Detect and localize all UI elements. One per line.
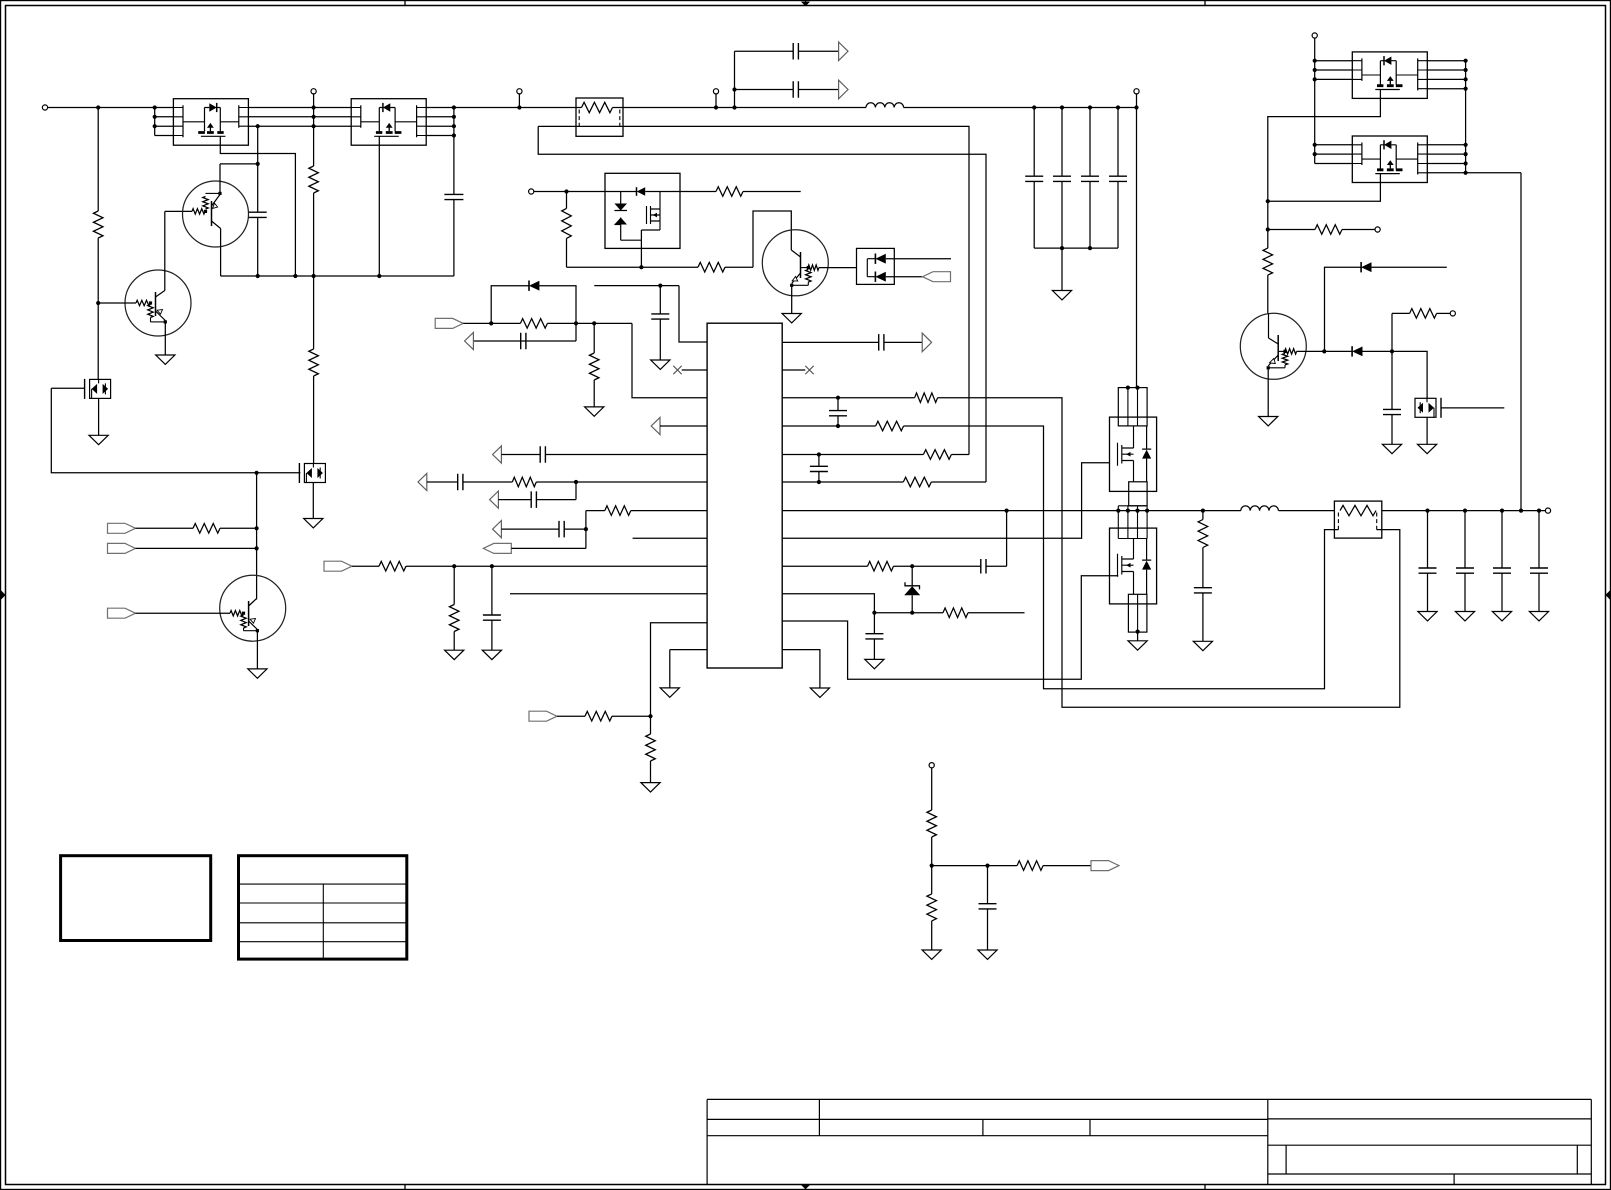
wire pin xyxy=(1427,144,1465,146)
wire xyxy=(586,510,605,512)
wire IC pin1R xyxy=(782,341,879,343)
ground xyxy=(1193,641,1212,650)
wire xyxy=(151,321,166,323)
capacitor C20 xyxy=(818,455,820,467)
wire Q1 emitter up xyxy=(219,164,221,194)
wire M1 source xyxy=(98,398,100,435)
ground xyxy=(585,407,604,416)
wire left pin bus xyxy=(1314,38,1316,163)
wire Q4 emitter xyxy=(791,285,793,313)
ground xyxy=(1052,291,1071,300)
wire Q2 base xyxy=(98,302,136,304)
wire diode branch xyxy=(1325,267,1362,351)
connector tag VCC xyxy=(435,318,463,328)
wire IC pin4 xyxy=(660,425,707,427)
wire xyxy=(1437,312,1451,314)
diode D4 xyxy=(1360,262,1362,272)
ground xyxy=(782,314,801,323)
wire xyxy=(313,193,315,349)
wire xyxy=(894,565,981,567)
wire M6 source xyxy=(1426,418,1428,445)
capacitor C6 xyxy=(793,81,798,98)
ground xyxy=(1455,612,1474,621)
wire pkg1 pin4 stub xyxy=(155,135,174,137)
ground xyxy=(865,659,884,668)
wire pin xyxy=(1315,153,1353,155)
resistor R25 xyxy=(943,608,968,618)
ground xyxy=(1382,444,1401,453)
wire Q3 emitter xyxy=(256,631,258,669)
resistor R9 xyxy=(562,208,572,238)
wire M1 drain xyxy=(97,303,99,379)
wire xyxy=(244,630,258,632)
wire IC pin6R xyxy=(782,481,903,483)
wire left pin bus vertical xyxy=(154,108,156,136)
resistor R29 xyxy=(1410,309,1437,319)
wire xyxy=(534,191,637,193)
capacitor xyxy=(1025,176,1043,181)
diode D3 xyxy=(528,281,530,291)
current sense transformer T1 xyxy=(576,98,623,136)
wire right pin bus xyxy=(1465,61,1467,173)
terminal xyxy=(1450,311,1455,316)
wire xyxy=(1089,108,1091,177)
resistor R15 xyxy=(605,506,631,516)
wire Q5 emitter xyxy=(1267,368,1269,417)
transistor Q5 xyxy=(1240,313,1306,379)
wire xyxy=(798,50,838,52)
capacitor C16 xyxy=(559,521,564,538)
transistor Q3 xyxy=(220,575,286,641)
ground xyxy=(304,519,323,528)
capacitor C19 xyxy=(837,398,839,411)
wire xyxy=(136,547,257,549)
wire to IC pin7 xyxy=(631,510,707,512)
wire pin xyxy=(1427,78,1465,80)
wire vertical bus3 to lower bus xyxy=(257,126,259,212)
wire xyxy=(593,380,595,407)
diode D2a xyxy=(874,254,876,264)
ground xyxy=(1529,612,1548,621)
ground xyxy=(482,650,501,659)
resistor R4 xyxy=(309,166,319,193)
wire xyxy=(453,632,455,651)
wire xyxy=(1043,865,1091,867)
mosfet package Q10B xyxy=(351,99,426,146)
connector tag IN2 xyxy=(108,543,136,553)
wire down to Q3 xyxy=(256,473,258,600)
wire xyxy=(931,921,933,950)
wire pin xyxy=(1427,163,1465,165)
wire xyxy=(518,94,520,108)
wire main rail xyxy=(613,107,867,109)
resistor Q4 be xyxy=(806,270,811,283)
ground xyxy=(651,360,670,369)
wire to IC pin1 xyxy=(679,286,707,342)
wire xyxy=(1297,350,1325,352)
wire xyxy=(491,566,493,615)
wire xyxy=(463,322,520,324)
wire xyxy=(1391,313,1393,351)
mosfet M2 xyxy=(299,463,325,483)
wire xyxy=(473,340,576,342)
Q3 internals xyxy=(248,601,250,626)
wire M3 gate line xyxy=(594,285,679,287)
capacitor C22 xyxy=(873,613,875,634)
ground xyxy=(810,688,829,697)
wire xyxy=(453,566,455,604)
wire cap feed vertical xyxy=(734,51,736,107)
wire lower bus xyxy=(221,275,454,277)
connector tag xyxy=(483,543,511,553)
Q2 internals xyxy=(155,292,157,316)
resistor R28 xyxy=(1263,248,1273,275)
wire xyxy=(792,284,809,286)
protection mosfet box M3 xyxy=(605,173,680,248)
wire IC pin7R power rail xyxy=(782,510,1241,512)
resistor Q5 be xyxy=(1282,353,1287,364)
ground xyxy=(1259,417,1278,426)
wire pkg2 right bus vertical xyxy=(453,108,455,195)
wire xyxy=(1061,248,1063,290)
wire xyxy=(931,481,986,483)
wire IC pin8 stub xyxy=(633,537,708,539)
terminal xyxy=(929,763,934,768)
terminal VOUT xyxy=(1545,508,1550,513)
input terminal J1 xyxy=(42,105,47,110)
node Q2 base xyxy=(96,301,100,305)
resistor R12 xyxy=(520,319,547,329)
wire xyxy=(220,527,257,529)
resistor R21 xyxy=(876,421,904,431)
ground xyxy=(660,688,679,697)
wire to Q4 collector xyxy=(753,211,791,267)
wire xyxy=(97,238,99,303)
resistor R17 xyxy=(449,605,459,632)
resistor Q3 base xyxy=(230,611,243,616)
wire Q7 source xyxy=(1268,183,1381,202)
wire xyxy=(1268,367,1285,369)
wire bus line 2 xyxy=(155,116,174,118)
resistor R31 xyxy=(1017,861,1043,871)
wire M3 source xyxy=(640,230,642,267)
connector tag IN1 xyxy=(108,523,136,533)
wire xyxy=(612,715,651,717)
wire pin xyxy=(1315,60,1353,62)
Q1 internals xyxy=(211,201,213,226)
revision table xyxy=(239,856,407,959)
wire xyxy=(650,761,652,783)
terminal VIN xyxy=(1134,89,1139,94)
ground xyxy=(156,355,175,364)
mosfet M1 xyxy=(85,379,111,399)
M3 glyph xyxy=(641,192,660,231)
arrow out xyxy=(839,42,848,61)
wire xyxy=(491,620,493,650)
wire xyxy=(463,481,512,483)
wire from top right block xyxy=(1520,173,1522,511)
wire Q1 collector down xyxy=(220,229,222,277)
wire xyxy=(97,108,99,212)
wire xyxy=(585,511,587,549)
resistor Q5 base xyxy=(1285,349,1297,354)
wire xyxy=(735,89,794,91)
wire T1 secondary A xyxy=(538,126,969,454)
wire xyxy=(1137,632,1139,641)
wire M3 source bus xyxy=(567,266,699,268)
wire xyxy=(1089,181,1091,248)
wire xyxy=(1033,181,1035,248)
resistor R30 xyxy=(927,810,937,837)
wire to T2 secondary left xyxy=(904,426,1339,689)
wire M2 source xyxy=(312,483,314,519)
pin header strip top xyxy=(1118,388,1147,426)
wire Q2 collector to Q1 base xyxy=(164,211,166,290)
resistor R26 + capacitor C23 xyxy=(1198,520,1208,548)
wire IC pin4R xyxy=(782,425,875,427)
Q4 internals xyxy=(800,252,802,278)
IC U1 pin NC left xyxy=(682,369,707,371)
ground xyxy=(978,950,997,959)
terminal xyxy=(517,89,522,94)
wire xyxy=(932,865,1017,867)
wire xyxy=(1363,350,1393,352)
wire xyxy=(1006,511,1008,567)
connector tag FB xyxy=(324,561,352,571)
wire xyxy=(931,866,933,894)
wire IC pin10R xyxy=(782,594,874,613)
resistor R16 xyxy=(379,561,406,571)
inductor L1 xyxy=(866,103,904,108)
terminal xyxy=(1375,227,1380,232)
TVS diodes xyxy=(614,192,627,241)
arrow xyxy=(490,491,499,508)
wire xyxy=(951,454,969,456)
resistor Q1 base xyxy=(192,209,205,214)
ground xyxy=(1418,612,1437,621)
connector tag IN3 xyxy=(108,608,136,618)
diode D2b xyxy=(874,272,876,282)
wire main rail after inductor xyxy=(904,107,1137,109)
wire pkg1 source routing xyxy=(220,145,295,276)
resistor Q4 base xyxy=(808,265,819,270)
transistor Q1 xyxy=(183,181,249,247)
connector tag VSNS xyxy=(1091,861,1119,871)
wire stub xyxy=(968,612,1025,614)
arrow xyxy=(465,332,474,349)
wire IC pin5R xyxy=(782,454,923,456)
wire IC pin2R NC xyxy=(782,369,805,371)
resistor Q3 be xyxy=(241,615,246,628)
capacitor C18 xyxy=(879,334,884,351)
wire to M6 drain xyxy=(1392,351,1427,398)
wire pin xyxy=(1315,144,1353,146)
arrow out xyxy=(922,333,931,352)
wire pin xyxy=(1427,60,1465,62)
capacitor xyxy=(1053,176,1071,181)
ground xyxy=(641,783,660,792)
wire xyxy=(884,341,922,343)
wire xyxy=(886,258,951,260)
resistor R23 xyxy=(903,477,931,487)
mosfet M6 xyxy=(1415,398,1441,418)
wire pin xyxy=(1427,172,1465,174)
wire xyxy=(536,499,576,501)
wire xyxy=(206,192,221,194)
capacitor C28 xyxy=(1391,351,1393,409)
transistor Q2 xyxy=(125,270,191,336)
wire xyxy=(931,768,933,810)
wire xyxy=(498,499,531,501)
wire IC pin11R gate lo xyxy=(782,576,1118,679)
capacitor C11 xyxy=(521,333,526,350)
wire T1 secondary B xyxy=(538,126,986,482)
capacitor xyxy=(1109,176,1127,181)
capacitor C21 xyxy=(981,559,986,574)
wire stub xyxy=(1372,266,1447,268)
capacitor C12 xyxy=(651,314,669,319)
resistor R10 xyxy=(716,187,743,197)
wire M6 gate stub xyxy=(1441,407,1504,409)
wire xyxy=(1033,108,1035,177)
border tick marks xyxy=(404,1,406,6)
resistor R7 xyxy=(193,524,220,534)
pin header strip mid xyxy=(1129,482,1147,506)
wire IC pin12 xyxy=(670,649,707,651)
wire pkg2 pin4 stub xyxy=(426,135,454,137)
wire xyxy=(1392,312,1410,314)
wire xyxy=(669,650,671,688)
ground xyxy=(1492,612,1511,621)
wire M1 gate xyxy=(51,387,84,389)
wire xyxy=(798,89,838,91)
wire xyxy=(1061,181,1063,248)
resistor R5 xyxy=(309,349,319,376)
wire xyxy=(511,547,586,549)
Q5 internals xyxy=(1277,335,1279,361)
output sense transformer T2 xyxy=(1334,501,1381,538)
wire xyxy=(566,192,568,209)
wire IC pin8R gate hi xyxy=(782,463,1109,539)
zener diode Z1 xyxy=(911,566,913,586)
wire xyxy=(645,191,716,193)
wire xyxy=(1466,172,1521,174)
wire Q6 source xyxy=(1268,98,1381,248)
capacitor C5 xyxy=(793,43,798,60)
inductor L2 xyxy=(1241,506,1279,511)
pin header strip bottom xyxy=(1128,594,1147,632)
ground xyxy=(1128,641,1147,650)
wire xyxy=(1267,275,1269,313)
wire xyxy=(735,50,794,52)
wire to IC pin5 xyxy=(545,454,707,456)
wire pin xyxy=(1315,69,1353,71)
wire Q3 base xyxy=(136,612,231,614)
resistor R13 xyxy=(589,353,599,380)
resistor Q2 base xyxy=(136,300,150,305)
wire xyxy=(136,527,194,529)
terminal xyxy=(529,189,534,194)
wire rail to halfbridge xyxy=(1136,108,1138,388)
wire xyxy=(501,528,559,530)
wire down to M2 drain xyxy=(313,376,315,464)
capacitor C3 xyxy=(444,194,463,199)
capacitor xyxy=(1081,176,1099,181)
arrow out xyxy=(839,80,848,99)
resistor R32 xyxy=(927,894,937,921)
wire xyxy=(566,238,568,267)
wire xyxy=(501,454,540,456)
wire to T2 secondary right xyxy=(938,398,1400,708)
arrow out xyxy=(651,417,660,434)
capacitor C14 xyxy=(458,474,463,491)
wire main input rail xyxy=(48,107,174,109)
ground xyxy=(248,669,267,678)
capacitor C13 xyxy=(540,446,545,463)
wire xyxy=(352,565,379,567)
resistor R18 xyxy=(585,711,612,721)
diode D5 xyxy=(1351,346,1353,356)
resistor R14 xyxy=(512,477,536,487)
wire main rail xyxy=(248,107,351,109)
wire xyxy=(659,286,661,314)
wire main rail xyxy=(426,107,581,109)
wire xyxy=(1061,108,1063,177)
arrow xyxy=(493,521,502,538)
wire stub xyxy=(743,191,801,193)
resistor R1 xyxy=(93,211,103,238)
wire xyxy=(886,276,923,278)
mosfet M5 (low side) xyxy=(1110,528,1157,604)
M3 body diode xyxy=(636,187,638,196)
transistor Q4 xyxy=(762,230,828,296)
wire center stem xyxy=(313,94,315,166)
mosfet M4 (high side) xyxy=(1110,417,1157,491)
wire pin xyxy=(1315,78,1353,80)
wire xyxy=(564,528,586,530)
resistor R20 xyxy=(915,393,938,403)
connector tag CS xyxy=(529,711,557,721)
capacitor C15 xyxy=(531,491,536,508)
wire to IC pin6 xyxy=(536,481,707,483)
resistor R19 xyxy=(646,734,656,761)
wire pin xyxy=(1427,153,1465,155)
mosfet package Q7 xyxy=(1352,136,1427,183)
terminal xyxy=(713,89,718,94)
wire pin xyxy=(1427,88,1465,90)
wire xyxy=(986,565,1007,567)
capacitor C29 xyxy=(987,866,989,904)
ground xyxy=(922,950,941,959)
resistor R22 xyxy=(923,450,951,460)
wire xyxy=(427,481,458,483)
wire to IC pin3 xyxy=(632,323,707,397)
resistor R11 xyxy=(698,262,725,272)
title block xyxy=(707,1098,1591,1100)
wire pin xyxy=(1427,69,1465,71)
wire xyxy=(220,163,258,165)
mosfet package Q10A xyxy=(173,99,248,146)
wire to IC pin9 xyxy=(406,565,707,567)
wire Q2 emitter xyxy=(164,322,166,355)
capacitor C2 xyxy=(249,212,267,217)
diode loop xyxy=(491,286,529,324)
wire xyxy=(1117,108,1119,177)
wire xyxy=(874,612,943,614)
resistor R24 xyxy=(868,561,894,571)
wire IC pin9R xyxy=(782,565,867,567)
wire pkg2 source routing xyxy=(378,145,380,276)
